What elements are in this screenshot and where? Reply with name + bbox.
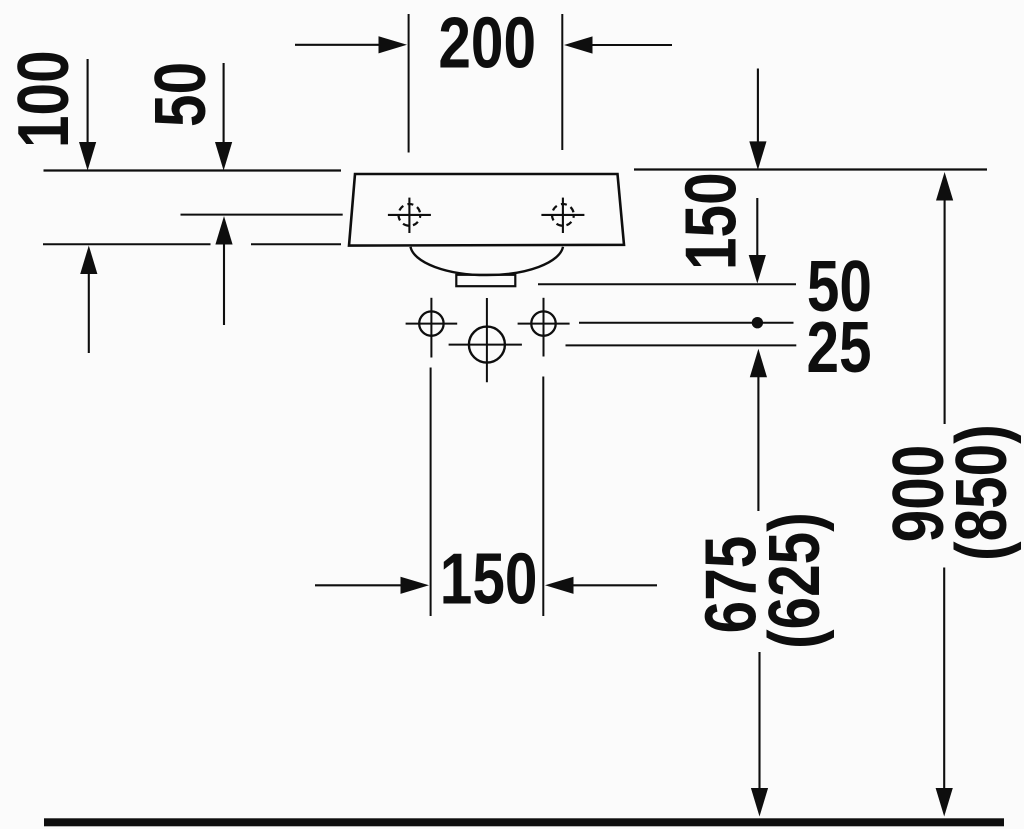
dimension arrow 200 right [564,36,672,53]
basin bowl front arc [411,247,564,275]
wire wall mounting line, left segment [44,169,342,171]
drain/overflow box under bowl [456,275,515,286]
wire 100-offset reference line, right part [251,243,341,245]
svg-text:25: 25 [806,307,871,387]
dimension arrow 100 lower (to rim bottom line) [80,246,97,354]
wire 100-offset reference line, left part [43,243,211,245]
wire 150-below-wall reference line [538,283,796,285]
dimension arrow 50 lower (to faucet line) [215,216,232,325]
wire 50-offset reference line with node dot [579,322,794,324]
node measurement dot on 50 line [752,317,763,328]
floor line [44,818,1004,826]
dimension arrow 150 bottom right [545,577,657,594]
dimension arrow 675 upper (to 25 line) [750,349,767,511]
wire 25-offset reference line [566,344,797,346]
extension line, left fixing hole (150 dim) [430,368,432,617]
extension line, right fixing hole (150 dim) [542,377,544,617]
svg-text:(850): (850) [941,424,1021,561]
right faucet hole centre mark [541,198,584,233]
wire faucet-height reference line (50 offset) [181,214,343,216]
left faucet hole centre mark [388,198,431,233]
svg-text:50: 50 [140,62,220,127]
svg-text:100: 100 [3,50,83,148]
dimension arrow 150 bottom left [315,577,429,594]
right fixing hole [518,298,570,357]
extension line, right faucet centre (200 dim) [561,14,563,150]
dimension arrow 675 lower (to floor) [751,652,768,817]
dimension arrow 200 left [295,36,407,53]
extension line, left faucet centre (200 dim) [408,14,410,153]
dimension arrow 900 upper (to wall line) [936,172,953,424]
svg-text:150: 150 [440,539,538,619]
svg-text:200: 200 [438,3,536,83]
washbasin body outline [349,174,624,246]
wire wall mounting line, right segment [634,168,987,170]
dimension arrow 150 upper (to wall line) [749,69,766,170]
centre drain hole [449,298,522,382]
svg-text:150: 150 [671,172,751,270]
dimension arrow 150 lower (to 150 line) [749,198,766,284]
dimension arrow 100 upper (to wall line) [79,59,96,171]
svg-text:(625): (625) [754,512,834,649]
dimension arrow 900 lower (to floor) [936,568,953,817]
dimension arrow 50 upper (to wall line) [215,63,232,171]
left fixing hole [406,298,458,358]
